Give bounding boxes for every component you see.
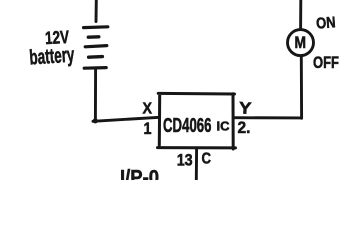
svg-text:IC: IC <box>217 119 231 134</box>
junction battery to X wire <box>93 118 98 123</box>
svg-text:CD4066: CD4066 <box>163 115 212 137</box>
svg-text:13: 13 <box>177 151 193 170</box>
wire motor bottom lead <box>300 57 303 118</box>
wire pin Y to motor branch <box>234 116 302 119</box>
svg-text:Y: Y <box>238 99 252 118</box>
wire battery positive lead (top) <box>95 0 98 22</box>
svg-text:X: X <box>143 101 153 118</box>
battery B1 12V <box>84 27 108 68</box>
svg-text:ON: ON <box>316 14 337 32</box>
wire node to pin X <box>93 117 160 121</box>
motor M1 circle <box>288 30 314 56</box>
svg-text:OFF: OFF <box>313 54 339 72</box>
op IC U1 CD4066 box <box>158 93 236 149</box>
svg-text:battery: battery <box>29 43 76 69</box>
svg-text:1: 1 <box>144 119 152 138</box>
wire motor top lead <box>299 0 302 29</box>
wire battery negative lead (down) <box>94 69 97 120</box>
svg-text:I/P-0: I/P-0 <box>120 167 159 180</box>
svg-text:C: C <box>202 151 212 168</box>
wire pin 13 control lead <box>195 148 198 180</box>
svg-text:M: M <box>295 34 307 52</box>
svg-text:2.: 2. <box>238 119 251 137</box>
